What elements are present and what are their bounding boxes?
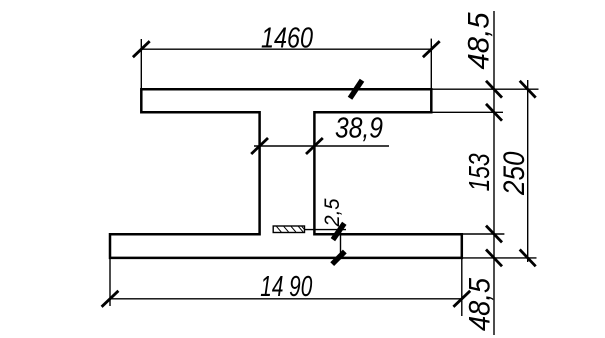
tick 1490 left (102, 291, 119, 307)
extension line 1460 left (140, 39, 142, 88)
leader line 2,5 (305, 229, 347, 231)
tick 38,9 left (251, 138, 268, 154)
hatched pad (273, 226, 304, 233)
extension line right at bottom flange bottom (463, 257, 537, 259)
tick 38,9 right (306, 138, 323, 154)
svg-text:14 90: 14 90 (260, 271, 312, 303)
beam outline (110, 89, 462, 258)
svg-text:48,5: 48,5 (463, 12, 496, 69)
extension line right at top flange top (432, 88, 539, 90)
tick 1490 right (453, 291, 470, 307)
dimension line 2,5 (340, 230, 342, 258)
extension line 1460 right (430, 39, 432, 88)
tick chain top flange bottom (486, 104, 502, 121)
dimension line 1460 (141, 48, 431, 50)
svg-text:38,9: 38,9 (335, 113, 383, 145)
tick 250 top (520, 81, 536, 98)
svg-text:2,5: 2,5 (321, 198, 344, 227)
svg-text:250: 250 (498, 151, 531, 196)
tick chain bottom flange bottom (486, 250, 502, 267)
svg-text:48,5: 48,5 (464, 278, 497, 331)
tick chain top flange top (486, 81, 502, 98)
extension line 1490 left (109, 258, 111, 306)
dimension line 1490 (110, 298, 462, 300)
svg-text:1460: 1460 (261, 23, 313, 55)
dimension chain line x=494 (493, 11, 495, 335)
tick chain bottom flange top (486, 226, 502, 243)
tick 250 bottom (520, 250, 536, 267)
thick tick 2,5 top (333, 223, 344, 239)
thick tick 2,5 bottom (332, 252, 345, 265)
tick 1460 left (133, 41, 150, 57)
svg-text:153: 153 (464, 153, 496, 191)
extension line right at bottom flange top (463, 233, 504, 235)
extension line right at top flange bottom (432, 111, 503, 113)
extension line 1490 right (461, 258, 463, 316)
tick 1460 right (423, 41, 440, 57)
dimension line 38,9 (254, 145, 389, 147)
dimension line 250 (527, 80, 529, 262)
thick tick on top flange (350, 80, 362, 98)
